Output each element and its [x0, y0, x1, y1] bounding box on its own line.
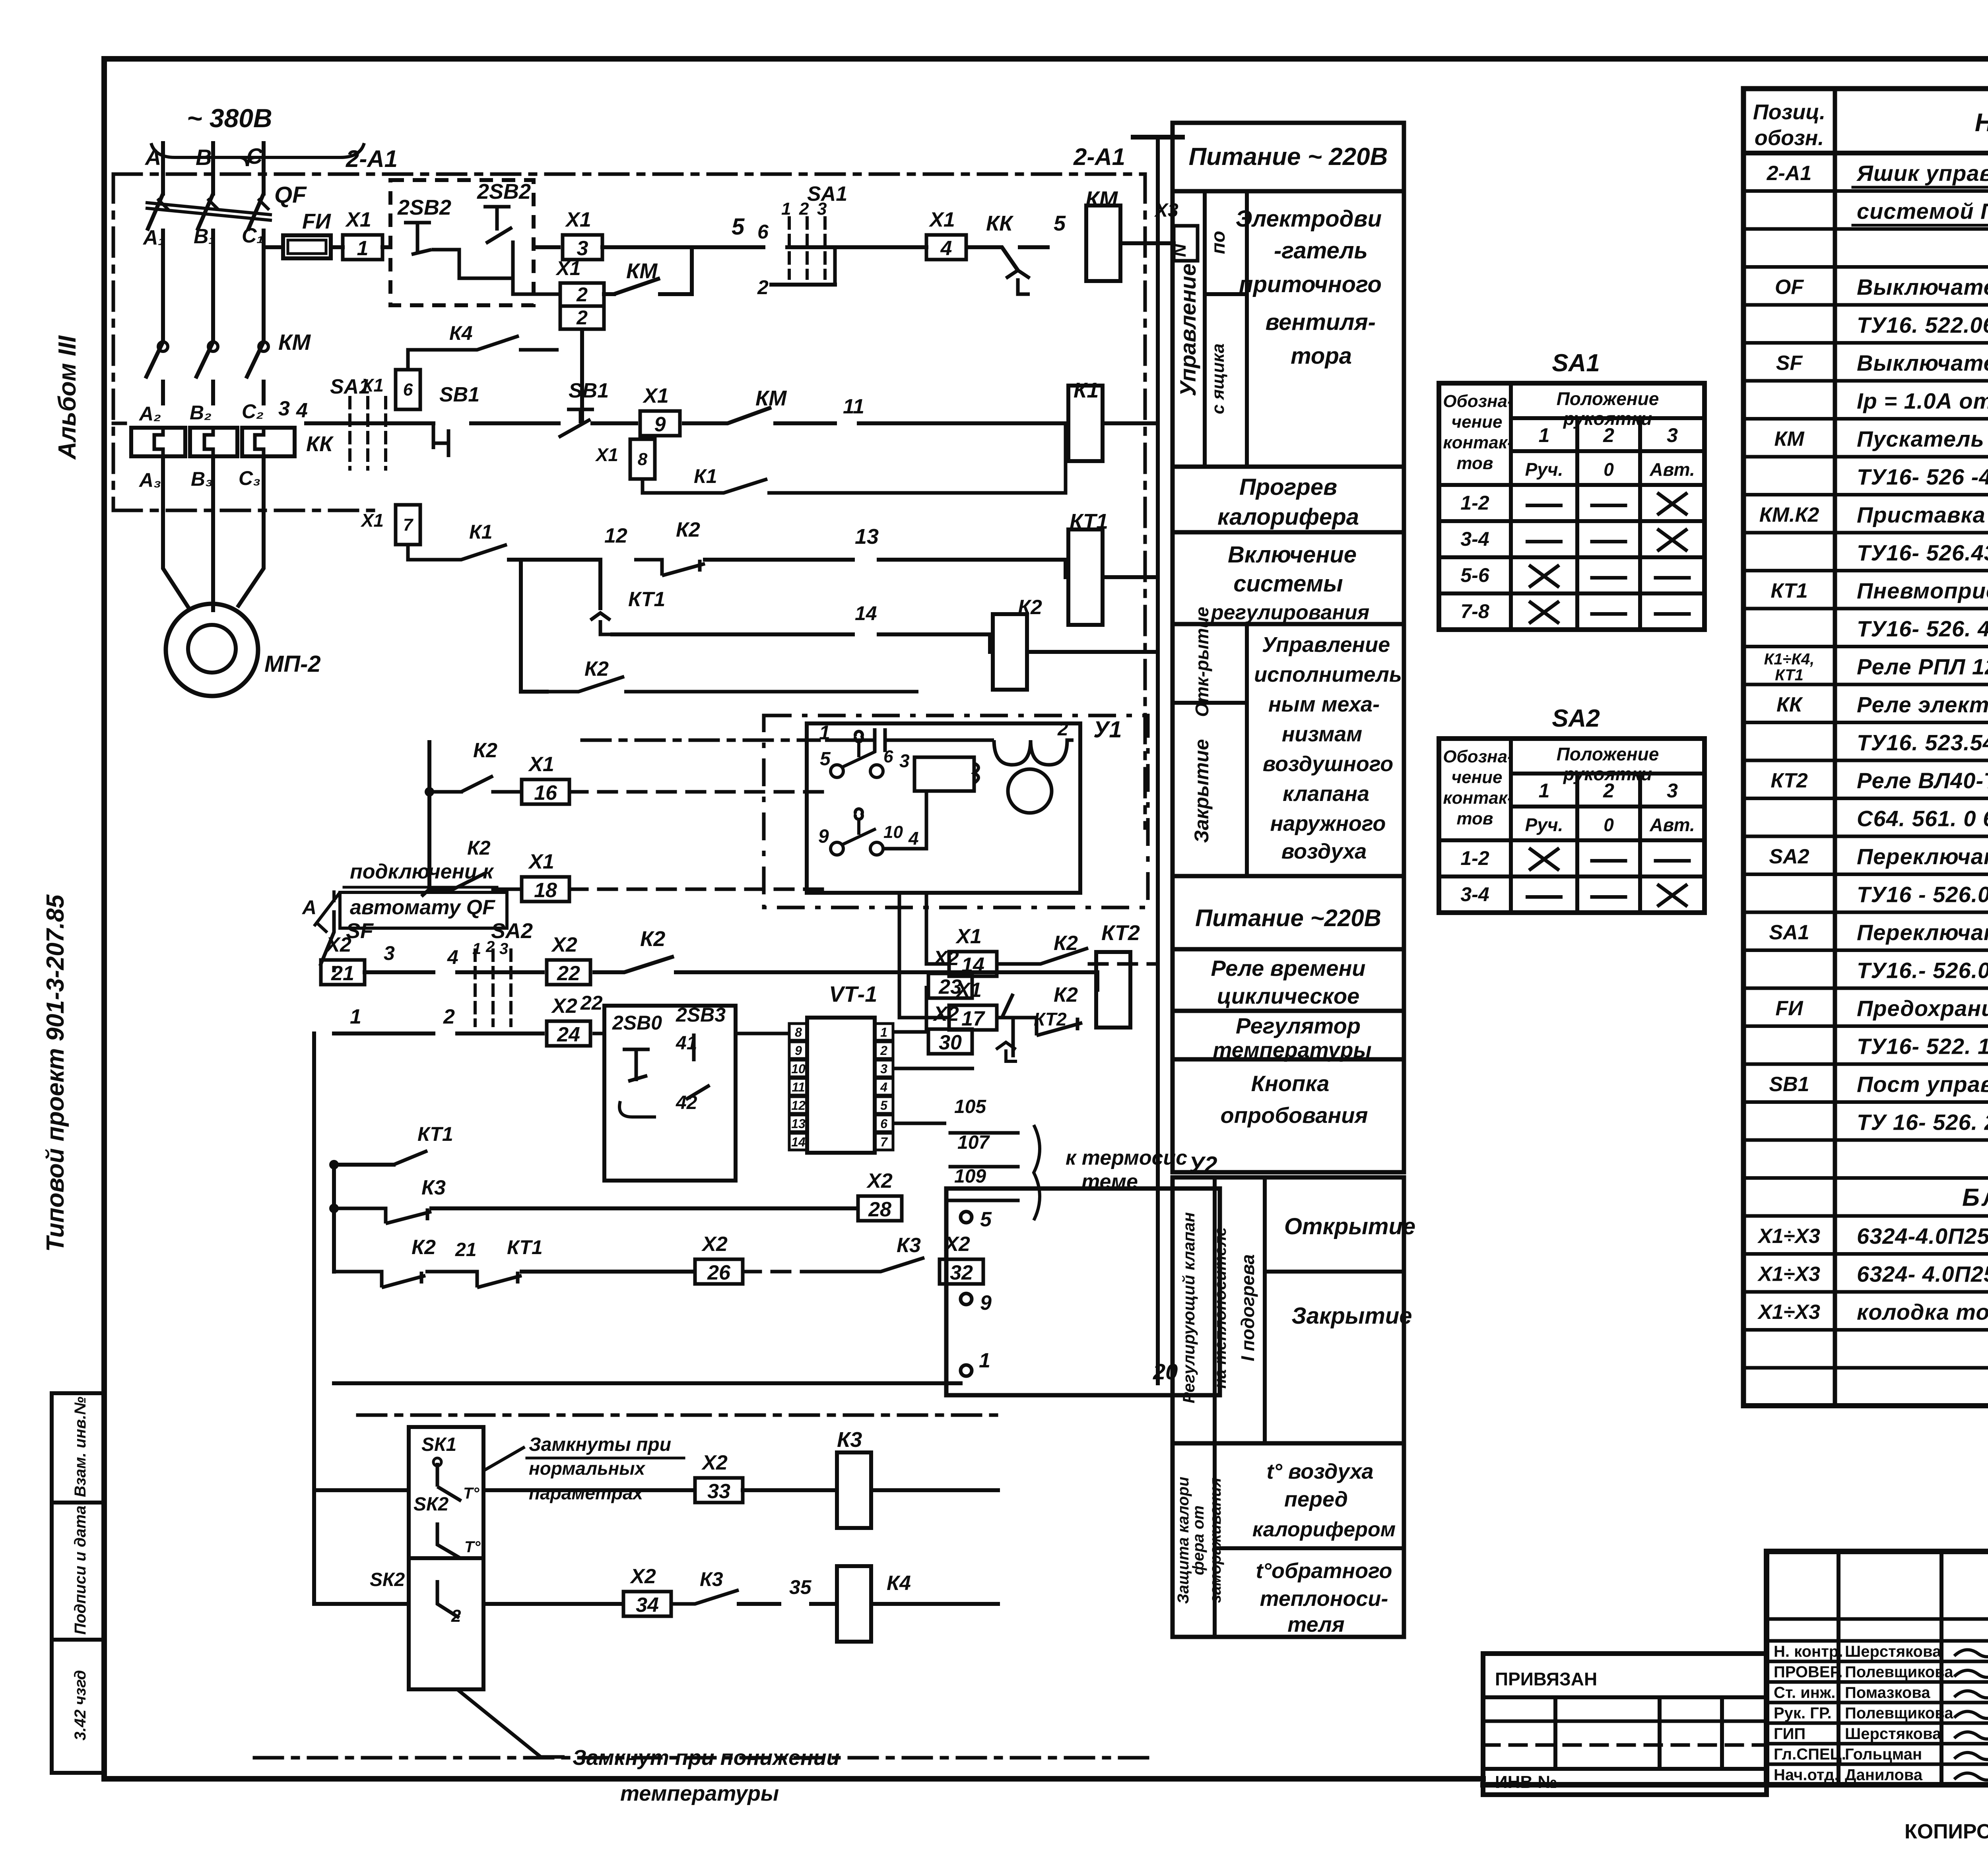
selector SA1 contacts 5-6 [757, 182, 847, 299]
local pushbutton box 2SB2 [390, 180, 560, 305]
svg-text:Х1÷Х3: Х1÷Х3 [1757, 1263, 1820, 1286]
svg-text:X2: X2 [701, 1451, 728, 1474]
SA2 contact position table [1439, 705, 1705, 913]
controller VT-1 [789, 981, 893, 1153]
svg-text:К2: К2 [584, 657, 609, 681]
svg-text:22: 22 [580, 992, 603, 1014]
svg-text:контак-: контак- [1443, 788, 1513, 808]
svg-text:системы: системы [1233, 571, 1343, 597]
svg-text:К4: К4 [449, 322, 473, 344]
svg-text:ТУ16 - 526.047-74: ТУ16 - 526.047-74 [1857, 882, 1988, 907]
svg-text:А₂: А₂ [138, 403, 161, 425]
svg-text:К1: К1 [469, 521, 493, 543]
svg-text:22: 22 [557, 962, 580, 985]
svg-text:Гольцман: Гольцман [1845, 1746, 1922, 1763]
svg-text:6324- 4.0П25-В/ВУЗ-10 ТУ16 -: 6324- 4.0П25-В/ВУЗ-10 ТУ16 - 526.463 -79 [1857, 1262, 1988, 1287]
svg-text:КТ1: КТ1 [417, 1123, 453, 1145]
svg-text:6: 6 [883, 747, 893, 766]
row15 wires K2 21 KT1 [334, 1233, 985, 1299]
svg-text:приточного: приточного [1239, 271, 1382, 297]
svg-text:ТУ16- 526.437- 78: ТУ16- 526.437- 78 [1857, 540, 1988, 565]
svg-text:10: 10 [791, 1062, 806, 1076]
svg-text:9: 9 [980, 1291, 992, 1315]
svg-text:К2: К2 [467, 837, 491, 859]
svg-text:2: 2 [576, 283, 588, 306]
svg-text:18: 18 [534, 879, 557, 902]
svg-text:2: 2 [451, 1606, 461, 1626]
svg-text:Взам. инв.№: Взам. инв.№ [72, 1396, 89, 1497]
svg-text:QF: QF [274, 182, 307, 208]
svg-text:13: 13 [791, 1117, 806, 1131]
svg-text:ТУ16.- 526.047 - 74: ТУ16.- 526.047 - 74 [1857, 958, 1988, 983]
svg-text:К3: К3 [700, 1568, 723, 1590]
svg-text:12: 12 [604, 524, 627, 547]
svg-text:ТУ 16- 526. 216- 78: ТУ 16- 526. 216- 78 [1857, 1110, 1988, 1135]
SA1 contact position table [1439, 349, 1705, 630]
function column box: air valve control [1173, 607, 1404, 876]
wire K2 to X1-16 [429, 739, 831, 805]
function column box: temperature regulator [1173, 1011, 1404, 1062]
svg-text:8: 8 [795, 1025, 802, 1039]
svg-text:Рук. ГР.: Рук. ГР. [1774, 1704, 1832, 1722]
wire X1-14 K2 [926, 893, 1158, 977]
wire row17 X2-33 K3 coil [314, 1033, 998, 1604]
contact K2 NC row4 [634, 518, 1066, 576]
function column box: cyclic time relay [1173, 949, 1404, 1011]
svg-text:КТ2: КТ2 [1771, 769, 1807, 792]
svg-text:2SB2: 2SB2 [477, 180, 531, 204]
svg-text:КМ: КМ [1085, 186, 1118, 211]
svg-text:ИНВ №: ИНВ № [1495, 1772, 1557, 1792]
svg-text:1: 1 [1539, 779, 1550, 802]
svg-text:Предохранитель ПРС- 6УЗ-ПIпл.В: Предохранитель ПРС- 6УЗ-ПIпл.Вст.4А [1857, 996, 1988, 1021]
svg-text:5: 5 [820, 748, 831, 770]
wire row3 start circuit [113, 397, 290, 423]
svg-text:t° воздуха: t° воздуха [1266, 1460, 1373, 1483]
svg-text:низмам: низмам [1282, 722, 1362, 746]
svg-text:2: 2 [1057, 719, 1068, 740]
pushbutton SB1 start [471, 379, 636, 437]
junction dots schematic [329, 1160, 339, 1169]
svg-text:23: 23 [938, 975, 962, 999]
contactor KM main contacts [146, 330, 311, 405]
svg-text:Реле времени: Реле времени [1211, 956, 1365, 981]
motor wires to MP-2 [163, 456, 264, 612]
relay coil K1 [1068, 243, 1158, 1383]
svg-text:7: 7 [403, 515, 414, 535]
svg-text:Позиц.: Позиц. [1753, 100, 1825, 124]
svg-text:9: 9 [654, 413, 666, 436]
svg-text:Т°: Т° [464, 1538, 481, 1556]
svg-text:автомату QF: автомату QF [350, 896, 495, 919]
svg-text:3-4: 3-4 [1460, 528, 1489, 550]
svg-text:Выключатель А63-МУЗ ~380В: Выключатель А63-МУЗ ~380В [1857, 351, 1988, 376]
svg-text:регулирования: регулирования [1210, 601, 1369, 624]
svg-text:7: 7 [880, 1135, 888, 1149]
svg-text:2-А1: 2-А1 [346, 145, 398, 172]
svg-text:Реле ВЛ40-ТУ4 ~220В ВВ 1: Реле ВЛ40-ТУ4 ~220В ВВ 10÷100с [1857, 768, 1988, 793]
svg-text:20: 20 [1153, 1359, 1178, 1384]
svg-text:В: В [196, 145, 212, 170]
svg-text:SB1: SB1 [1769, 1073, 1809, 1096]
svg-text:X2: X2 [932, 1002, 959, 1026]
bottom boundary dash-dot [254, 1756, 1158, 1760]
svg-text:Пускатель пмл 210 004 ~220В: Пускатель пмл 210 004 ~220В [1857, 427, 1988, 452]
svg-text:SA2: SA2 [1552, 705, 1600, 732]
svg-text:Приставка контактная ПКЛ 2204: Приставка контактная ПКЛ 2204 [1857, 502, 1988, 527]
svg-text:X1: X1 [955, 925, 982, 948]
component list table [1743, 89, 1988, 1406]
svg-text:А: А [144, 145, 161, 170]
svg-text:SA2: SA2 [1769, 845, 1809, 868]
wire row12 [314, 972, 543, 1033]
svg-text:FИ: FИ [302, 209, 331, 233]
relay coil K2 row5 [990, 596, 1158, 690]
svg-text:26: 26 [707, 1261, 731, 1284]
svg-text:X1: X1 [528, 850, 554, 873]
svg-text:Полевщикова: Полевщикова [1845, 1664, 1953, 1681]
privyazan stamp box [1483, 1654, 1767, 1795]
svg-text:К1: К1 [694, 465, 717, 487]
motor MP-2 [166, 604, 321, 696]
svg-text:Авт.: Авт. [1649, 814, 1695, 835]
thermostat SK2 box [370, 1558, 483, 1689]
note zamknuty pri normalnyh [483, 1434, 684, 1503]
selector SA2 contacts [447, 919, 543, 1026]
svg-text:2: 2 [799, 199, 809, 219]
svg-text:МП-2: МП-2 [264, 651, 321, 677]
svg-text:клапана: клапана [1283, 782, 1369, 806]
svg-text:5: 5 [1054, 211, 1066, 235]
contactor coil KM [1085, 186, 1149, 281]
svg-text:X1: X1 [595, 444, 618, 465]
thermal delay contact KT1 row5 [590, 560, 990, 634]
svg-text:ТУ16. 523.549-82: ТУ16. 523.549-82 [1857, 730, 1988, 755]
svg-text:11: 11 [792, 1080, 805, 1094]
svg-text:контак-: контак- [1443, 433, 1513, 452]
svg-text:К1÷К4,: К1÷К4, [1764, 651, 1815, 668]
svg-text:~ 380В: ~ 380В [187, 103, 272, 133]
svg-text:2: 2 [757, 276, 769, 299]
svg-text:2-А1: 2-А1 [1767, 162, 1812, 185]
svg-text:16: 16 [534, 781, 557, 805]
contact K2 row6 [521, 560, 918, 692]
thermal contact KK [966, 211, 1066, 294]
svg-text:ПРИВЯЗАН: ПРИВЯЗАН [1495, 1669, 1597, 1689]
svg-text:X2: X2 [551, 933, 577, 956]
svg-text:Iр = 1.0А отс. 2.5 ТУ16- 522: Iр = 1.0А отс. 2.5 ТУ16- 522.110-74 [1857, 388, 1988, 413]
vertical drop from X1-2 to row3 [580, 329, 584, 423]
left margin stamp boxes [52, 1393, 104, 1773]
svg-text:5: 5 [980, 1208, 992, 1231]
svg-text:ТУ16. 522.064-75: ТУ16. 522.064-75 [1857, 312, 1988, 337]
svg-text:12: 12 [791, 1098, 806, 1113]
svg-text:Х1÷Х3: Х1÷Х3 [1757, 1301, 1820, 1324]
svg-text:Управление: Управление [1262, 633, 1390, 657]
svg-text:SК1: SК1 [421, 1434, 456, 1455]
svg-text:колодка торцевая КТ5У ТУ16-52: колодка торцевая КТ5У ТУ16-526.462-79 [1857, 1299, 1988, 1324]
fuse FI [264, 209, 343, 258]
function column box: motor control [1173, 191, 1404, 467]
svg-text:Регулирующий клапан: Регулирующий клапан [1179, 1212, 1198, 1403]
svg-text:X2: X2 [932, 947, 959, 970]
dash enclosure around U1 [764, 715, 1148, 907]
svg-text:I подогрева: I подогрева [1237, 1254, 1258, 1361]
svg-text:SB1: SB1 [439, 383, 480, 406]
svg-text:1: 1 [781, 199, 791, 219]
svg-text:К2: К2 [412, 1236, 436, 1259]
svg-text:С: С [247, 143, 263, 169]
svg-text:SК2: SК2 [370, 1569, 405, 1590]
svg-text:Включение: Включение [1228, 542, 1357, 568]
svg-text:с ящика: с ящика [1208, 343, 1228, 414]
svg-text:Положение: Положение [1557, 744, 1659, 764]
svg-text:X1: X1 [928, 208, 955, 231]
function column box: system regulation on [1173, 532, 1404, 624]
svg-text:SB1: SB1 [569, 379, 609, 402]
svg-text:2SB0: 2SB0 [612, 1012, 662, 1034]
svg-text:тора: тора [1291, 343, 1352, 369]
svg-text:X2: X2 [629, 1565, 656, 1588]
unit U2 [904, 1152, 1220, 1395]
svg-text:1: 1 [1539, 424, 1550, 446]
svg-text:КТ2: КТ2 [1034, 1009, 1067, 1030]
svg-text:21: 21 [455, 1239, 476, 1260]
svg-text:воздуха: воздуха [1281, 840, 1367, 863]
svg-text:У1: У1 [1093, 717, 1122, 743]
svg-text:Обозна-: Обозна- [1443, 392, 1513, 411]
svg-text:С₃: С₃ [239, 467, 261, 489]
svg-text:Реле РПЛ 1220. 4 ~220В ТУ16-5: Реле РПЛ 1220. 4 ~220В ТУ16-523.554-78 [1857, 654, 1988, 679]
svg-text:наружного: наружного [1270, 812, 1386, 836]
svg-text:1-2: 1-2 [1460, 492, 1489, 514]
svg-text:ным меха-: ным меха- [1268, 692, 1380, 716]
wire row11 [314, 933, 433, 985]
svg-text:К2: К2 [640, 927, 665, 951]
svg-text:SA1: SA1 [1552, 349, 1600, 377]
title block [1767, 1551, 1988, 1786]
svg-text:109: 109 [954, 1166, 986, 1187]
svg-text:КТ1: КТ1 [628, 588, 665, 611]
svg-text:Реле электротепловое РТЛ 1016: Реле электротепловое РТЛ 101604 [1857, 692, 1988, 717]
svg-text:К2: К2 [1054, 983, 1078, 1006]
svg-text:теплоноси-: теплоноси- [1260, 1587, 1388, 1611]
svg-text:Яшик управления приточной: Яшик управления приточной [1856, 161, 1988, 186]
svg-text:VТ-1: VТ-1 [829, 981, 877, 1006]
svg-text:перед: перед [1284, 1487, 1348, 1511]
svg-text:Нач.отд.: Нач.отд. [1774, 1766, 1839, 1784]
svg-text:SA1: SA1 [807, 182, 847, 206]
svg-text:теля: теля [1287, 1613, 1344, 1636]
svg-text:КМ.К2: КМ.К2 [1759, 504, 1819, 527]
svg-text:воздушного: воздушного [1263, 752, 1394, 776]
svg-text:Замкнуты при: Замкнуты при [529, 1434, 671, 1455]
svg-text:КТ1: КТ1 [507, 1236, 543, 1258]
svg-text:калорифера: калорифера [1217, 504, 1359, 530]
svg-text:3: 3 [577, 237, 588, 260]
svg-text:КК: КК [986, 211, 1014, 235]
wire K2 to X1-18 [421, 837, 831, 902]
svg-text:К3: К3 [837, 1428, 862, 1452]
contact K3 row14 [334, 1165, 855, 1272]
svg-text:С₂: С₂ [242, 400, 264, 423]
svg-text:Переключатель ПКУЗ-12С-УЗ схе: Переключатель ПКУЗ-12С-УЗ схема0102 [1857, 844, 1988, 869]
svg-text:2: 2 [443, 1005, 455, 1028]
wire X1-17 K2 [891, 791, 1158, 1035]
svg-text:А: А [301, 896, 316, 919]
svg-text:тов: тов [1457, 809, 1493, 828]
svg-text:С64. 561. 0 62ТО: С64. 561. 0 62ТО [1857, 806, 1988, 831]
svg-text:1: 1 [979, 1349, 990, 1372]
svg-text:температуры: температуры [620, 1782, 779, 1805]
svg-text:В₂: В₂ [190, 401, 212, 424]
terminal X1-3 [563, 235, 602, 260]
thermal relay KK heaters [131, 428, 334, 456]
function column box: regulating valve open/close [1173, 1177, 1415, 1443]
svg-text:X1: X1 [642, 384, 669, 407]
svg-text:14: 14 [855, 602, 877, 624]
svg-text:6324-4.0П25-В/ВУЗ-5 ТУ16 - 52: 6324-4.0П25-В/ВУЗ-5 ТУ16 - 526.462-79 [1857, 1223, 1988, 1249]
svg-text:5-6: 5-6 [1460, 564, 1489, 586]
contact K2 row11 [592, 927, 1097, 972]
svg-text:42: 42 [676, 1092, 697, 1113]
contact K1 row4 [433, 521, 627, 560]
svg-text:Открытие: Открытие [1284, 1214, 1415, 1239]
svg-text:Блоки зажимов: Блоки зажимов [1962, 1184, 1988, 1212]
svg-text:3: 3 [880, 1062, 887, 1076]
svg-text:фера от: фера от [1190, 1505, 1207, 1575]
svg-text:SA1: SA1 [1769, 921, 1809, 944]
svg-text:13: 13 [855, 525, 879, 549]
svg-text:4: 4 [447, 946, 458, 968]
svg-text:X1: X1 [528, 753, 554, 776]
svg-text:К1: К1 [1074, 378, 1099, 402]
svg-text:КТ1: КТ1 [1775, 667, 1804, 684]
svg-text:Электродви: Электродви [1236, 206, 1382, 232]
svg-text:чение: чение [1451, 768, 1502, 787]
svg-text:А₃: А₃ [138, 469, 161, 491]
terminal X1-6 [360, 322, 1014, 423]
svg-text:5: 5 [732, 214, 745, 240]
svg-text:КК: КК [306, 432, 334, 456]
svg-text:чение: чение [1451, 412, 1502, 432]
svg-text:9: 9 [818, 826, 829, 847]
svg-text:2: 2 [1603, 779, 1614, 802]
svg-text:обозн.: обозн. [1755, 126, 1824, 150]
svg-text:Пневмоприставка ПВЛ М04: Пневмоприставка ПВЛ М04 [1857, 578, 1988, 603]
svg-text:4: 4 [908, 828, 919, 849]
svg-text:1: 1 [880, 1025, 887, 1039]
wire into U1 row 1-2 [113, 739, 819, 742]
svg-text:У2: У2 [1189, 1152, 1217, 1178]
svg-text:Закрытие: Закрытие [1291, 1303, 1412, 1329]
wire row5 top bus [602, 214, 835, 247]
svg-text:К3: К3 [897, 1234, 921, 1257]
wire row18 X2-34 K3 contact K4 coil [314, 1490, 998, 1642]
svg-text:2: 2 [576, 306, 588, 329]
svg-text:Подписи и дата: Подписи и дата [72, 1506, 89, 1635]
svg-text:Пост управления ПКЕ-112-2УЗ: Пост управления ПКЕ-112-2УЗ [1857, 1072, 1988, 1097]
svg-text:4: 4 [940, 237, 952, 260]
timer coil KT2 [1096, 921, 1158, 1045]
svg-text:35: 35 [789, 1576, 812, 1598]
svg-text:8: 8 [638, 450, 648, 469]
pushbutton box 2SB0/2SB3 [592, 1004, 736, 1181]
svg-text:9: 9 [795, 1043, 802, 1058]
svg-text:N: N [1169, 244, 1190, 257]
function column box: heater freeze protection [1173, 1443, 1404, 1637]
svg-text:1: 1 [350, 1005, 361, 1028]
svg-text:Н. контр.: Н. контр. [1774, 1643, 1843, 1660]
right rail bottom segment [998, 1383, 1158, 1758]
svg-text:-гатель: -гатель [1274, 238, 1368, 264]
wire KM aux row [604, 247, 692, 294]
note text connect to QF [314, 860, 507, 928]
dash-dot boundary bottom [358, 1415, 998, 1638]
svg-text:1: 1 [357, 237, 369, 260]
svg-text:подключени к: подключени к [350, 860, 494, 883]
svg-text:Типовой проект 901-3-207.85: Типовой проект 901-3-207.85 [42, 894, 69, 1252]
enclosure 2-A1 boundary [113, 143, 1145, 828]
phase wires [161, 143, 165, 194]
terminal X1-9 [640, 411, 680, 436]
svg-text:Положение: Положение [1557, 388, 1659, 409]
svg-text:X2: X2 [944, 1233, 970, 1256]
svg-text:0: 0 [1604, 814, 1614, 835]
svg-text:32: 32 [950, 1261, 973, 1284]
svg-text:Регулятор: Регулятор [1236, 1013, 1361, 1038]
svg-text:X2: X2 [866, 1169, 893, 1192]
svg-text:К3: К3 [421, 1176, 446, 1199]
svg-text:SA2: SA2 [491, 919, 533, 943]
svg-text:КМ: КМ [1774, 428, 1805, 451]
svg-text:34: 34 [636, 1594, 659, 1617]
vertical feed line left of U1 [427, 740, 431, 889]
svg-text:Шерстякова: Шерстякова [1845, 1725, 1941, 1743]
svg-text:Ст. инж.: Ст. инж. [1774, 1684, 1835, 1701]
svg-text:Шерстякова: Шерстякова [1845, 1643, 1941, 1660]
svg-text:X1: X1 [555, 257, 580, 279]
svg-text:33: 33 [707, 1480, 730, 1503]
svg-text:4: 4 [296, 399, 308, 422]
svg-text:К2: К2 [676, 518, 700, 541]
selector SA1 contacts row3 [296, 375, 433, 469]
svg-text:1-2: 1-2 [1460, 847, 1489, 869]
pushbutton SB1 stop [433, 383, 480, 457]
contact KT1 row13 [334, 889, 553, 1208]
svg-text:10: 10 [883, 822, 903, 842]
svg-text:3: 3 [1667, 424, 1678, 446]
svg-text:0: 0 [1604, 459, 1614, 480]
svg-text:3: 3 [1667, 779, 1678, 802]
timer coil KT1 [1066, 510, 1158, 625]
svg-text:Х1÷Х3: Х1÷Х3 [1757, 1225, 1820, 1248]
row16 wire to U2-1 [334, 1272, 1220, 1383]
svg-text:опробования: опробования [1221, 1103, 1368, 1128]
svg-text:4: 4 [880, 1080, 887, 1094]
svg-text:t°обратного: t°обратного [1256, 1559, 1392, 1583]
svg-text:6: 6 [757, 221, 769, 243]
svg-text:Авт.: Авт. [1649, 459, 1695, 480]
svg-text:X2: X2 [701, 1233, 728, 1256]
svg-text:2: 2 [880, 1043, 887, 1058]
svg-text:исполнитель: исполнитель [1254, 663, 1402, 686]
svg-text:3: 3 [817, 199, 827, 219]
svg-text:ОF: ОF [1775, 276, 1804, 299]
svg-text:2SB3: 2SB3 [676, 1004, 726, 1026]
svg-text:Альбом III: Альбом III [54, 335, 81, 460]
svg-text:КТ1: КТ1 [1771, 580, 1807, 603]
